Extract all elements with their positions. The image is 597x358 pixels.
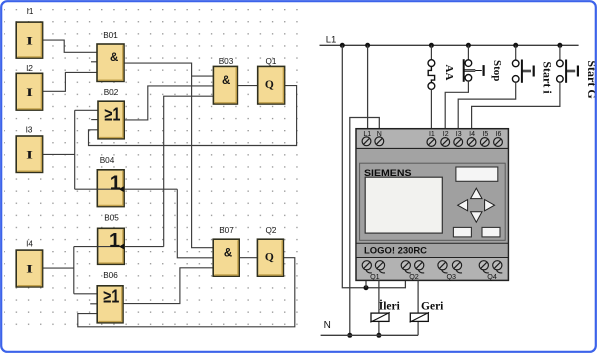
terminal screw Q2 right bbox=[415, 261, 424, 270]
svg-text:B06: B06 bbox=[103, 271, 118, 280]
AA squiggle element bbox=[428, 67, 434, 83]
terminal screw Q3 left bbox=[438, 261, 447, 270]
svg-text:Q1: Q1 bbox=[370, 272, 380, 281]
Start G actuator bbox=[566, 70, 575, 71]
input block I4 bbox=[16, 250, 42, 287]
svg-text:B03: B03 bbox=[219, 57, 234, 66]
feedback wire Q2 to B06 input 3 bbox=[78, 258, 295, 327]
PLC cursor key down bbox=[471, 212, 482, 222]
Stop actuator bbox=[465, 70, 482, 72]
PLC LOGO! 230RC body bbox=[356, 129, 508, 281]
junction dot Q1 common bbox=[364, 285, 369, 290]
AND gate B01 bbox=[97, 44, 124, 81]
svg-text:1: 1 bbox=[109, 230, 120, 252]
PLC bottom strip line bbox=[356, 257, 508, 259]
junction dot Ileri to N bbox=[376, 333, 381, 338]
B05 through line bbox=[98, 246, 120, 248]
wire B04 line to B07 input 2 bbox=[75, 189, 214, 258]
PLC LCD display bbox=[365, 177, 442, 233]
svg-text:L1: L1 bbox=[326, 35, 337, 46]
PLC cursor key right bbox=[485, 200, 495, 211]
wire L1 down the left side to relay commons bbox=[342, 45, 405, 287]
svg-text:&: & bbox=[222, 75, 230, 87]
AND gate B03 bbox=[213, 66, 237, 104]
wire I2 to B01 input 3 bbox=[43, 72, 97, 91]
terminal screw L1 bbox=[362, 137, 371, 146]
terminal screw Q4 right bbox=[493, 261, 502, 270]
svg-text:Q2: Q2 bbox=[266, 226, 277, 235]
terminal screw I1 bbox=[427, 138, 436, 147]
terminal screw I3 bbox=[454, 138, 463, 147]
svg-text:Start i: Start i bbox=[540, 61, 554, 94]
input block I1 bbox=[16, 22, 42, 58]
wire Start i to I3 terminal bbox=[458, 82, 516, 137]
terminal screw I5 bbox=[480, 138, 489, 147]
svg-text:Geri: Geri bbox=[421, 301, 444, 313]
svg-text:Q3: Q3 bbox=[446, 272, 456, 281]
feedback wire Q1 to B02 input 3 bbox=[89, 86, 297, 146]
input block I2 bbox=[16, 73, 42, 110]
B02 input 2 stub bbox=[91, 119, 98, 121]
PLC small button 1 bbox=[453, 227, 471, 237]
svg-text:B05: B05 bbox=[104, 213, 119, 222]
PLC cursor key up bbox=[471, 188, 482, 198]
relay coil Geri bbox=[410, 312, 429, 322]
terminal screw N bbox=[375, 137, 384, 146]
wire I4 fanout to B05 and B06 input 1 bbox=[43, 247, 97, 294]
wire L1 to Stop bbox=[467, 45, 469, 60]
output block Q2 bbox=[257, 239, 283, 276]
Stop contact bridge bbox=[463, 59, 465, 82]
svg-text:Q: Q bbox=[265, 251, 274, 263]
PLC small button 2 bbox=[482, 227, 500, 237]
svg-text:B04: B04 bbox=[100, 156, 115, 165]
svg-text:B07: B07 bbox=[219, 226, 234, 235]
PLC label band line bbox=[356, 242, 508, 244]
wire B07 output to Q2 bbox=[239, 257, 257, 259]
Start G contact bridge bbox=[565, 60, 567, 83]
wire B05 line to B03 input 3 bbox=[74, 96, 214, 246]
svg-text:I: I bbox=[26, 262, 33, 276]
svg-text:LOGO! 230RC: LOGO! 230RC bbox=[364, 246, 428, 256]
output block Q1 bbox=[258, 66, 285, 104]
edge gate B04 bbox=[97, 170, 124, 207]
terminal screw I2 bbox=[441, 138, 450, 147]
PLC inner panel bbox=[360, 163, 506, 240]
svg-text:I1: I1 bbox=[27, 7, 34, 16]
wire junction to Q1 terminal bbox=[365, 280, 367, 287]
wire I1 to B01 input 1 bbox=[43, 40, 97, 52]
relay contact mark Q2 bbox=[405, 270, 424, 273]
svg-text:AA: AA bbox=[443, 65, 455, 81]
wire L1 to Start i bbox=[515, 45, 517, 60]
wire L1 to Start G bbox=[559, 45, 561, 60]
terminal screw Q3 right bbox=[452, 261, 461, 270]
PLC top-right button bbox=[456, 167, 498, 181]
svg-text:I: I bbox=[26, 85, 33, 99]
B04 through line bbox=[97, 188, 119, 190]
wire Stop to I2 terminal bbox=[445, 81, 468, 137]
PLC cursor key left bbox=[458, 200, 468, 211]
svg-text:I2: I2 bbox=[26, 64, 33, 73]
svg-text:≥1: ≥1 bbox=[103, 287, 119, 307]
svg-text:≥1: ≥1 bbox=[104, 105, 120, 125]
svg-text:&: & bbox=[224, 248, 232, 260]
svg-text:B02: B02 bbox=[104, 88, 119, 97]
svg-text:I3: I3 bbox=[26, 126, 33, 135]
svg-text:I4: I4 bbox=[26, 240, 33, 249]
terminal screw Q2 left bbox=[401, 261, 410, 270]
wire B03 output to Q1 bbox=[237, 85, 257, 87]
terminal screw I6 bbox=[494, 138, 503, 147]
terminal screw Q1 right bbox=[375, 261, 384, 270]
edge gate B05 bbox=[98, 228, 125, 264]
PLC top strip line bbox=[356, 147, 508, 149]
wire I3 fanout to B02 input 1 and B04 bbox=[43, 110, 98, 189]
svg-text:1: 1 bbox=[110, 172, 121, 194]
wire Q1 to Ileri coil bbox=[378, 280, 380, 335]
wire Start G to I4 terminal bbox=[472, 82, 560, 137]
wire B02 output to B03 input 2 bbox=[124, 86, 213, 120]
input block I3 bbox=[16, 136, 42, 172]
svg-text:Q4: Q4 bbox=[487, 272, 497, 281]
L1 supply rail bbox=[320, 44, 579, 46]
svg-text:Q: Q bbox=[265, 79, 274, 91]
relay contact mark Q1 bbox=[366, 270, 385, 273]
Start i contact bridge bbox=[521, 60, 523, 83]
PLC mid body bbox=[357, 148, 508, 257]
Start i actuator bbox=[522, 70, 531, 71]
OR gate B02 bbox=[98, 101, 124, 139]
B01 input 2 stub bbox=[91, 61, 97, 63]
junction dot on N rail bbox=[347, 333, 352, 338]
svg-text:Q2: Q2 bbox=[409, 272, 419, 281]
svg-text:I: I bbox=[26, 33, 33, 47]
terminal screw I4 bbox=[467, 138, 476, 147]
terminal screw Q1 left bbox=[362, 261, 371, 270]
wire B01 output to B07 input 1 and B03 input 1 bbox=[124, 63, 214, 248]
wire N terminal routed to N rail bbox=[350, 118, 380, 336]
svg-text:N: N bbox=[324, 320, 331, 331]
relay contact mark Q4 bbox=[483, 270, 503, 273]
B05 edge arrow bbox=[119, 244, 124, 250]
AND gate B07 bbox=[213, 239, 239, 276]
svg-text:Stop: Stop bbox=[491, 60, 503, 81]
relay coil Ileri bbox=[370, 312, 389, 322]
FBD grid background bbox=[4, 4, 304, 331]
relay contact mark Q3 bbox=[442, 270, 463, 273]
wire L1 to AA bbox=[430, 45, 432, 59]
svg-text:Q1: Q1 bbox=[266, 57, 277, 66]
OR gate B06 bbox=[97, 286, 123, 323]
N rail bbox=[321, 334, 419, 336]
wire AA to I1 terminal bbox=[430, 89, 432, 137]
wire L1 rail to PLC L1 terminal bbox=[367, 45, 369, 137]
svg-text:İleri: İleri bbox=[379, 299, 401, 313]
wire B06 output to B07 input 3 bbox=[123, 268, 213, 304]
svg-text:B01: B01 bbox=[103, 31, 118, 40]
svg-text:I: I bbox=[26, 147, 33, 161]
B06 input 2 stub bbox=[90, 303, 97, 305]
wire Q2 to Geri coil bbox=[417, 280, 419, 335]
terminal screw Q4 left bbox=[479, 261, 488, 270]
B04 edge arrow bbox=[119, 186, 124, 192]
L1 rail junction dots bbox=[340, 43, 345, 48]
svg-text:&: & bbox=[110, 52, 118, 64]
